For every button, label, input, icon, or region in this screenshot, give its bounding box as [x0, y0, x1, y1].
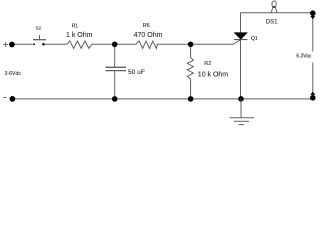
- node: right rail bottom junction: [310, 95, 316, 101]
- arrow down at right rail top: [310, 16, 315, 19]
- terminal dot minus: [10, 96, 16, 102]
- wire: right rail vertical upper: [312, 13, 314, 52]
- svg-text:DS1: DS1: [266, 20, 278, 26]
- node: R2 top junction: [188, 42, 194, 48]
- wire: plus terminal to switch: [12, 43, 32, 45]
- resistor R1 zigzag: [67, 41, 94, 48]
- SCR Q1 cathode bar: [234, 39, 248, 41]
- wire: R1 to R6 (through cap junction): [94, 43, 136, 45]
- resistor R6 zigzag: [136, 41, 158, 48]
- svg-text:R6: R6: [143, 23, 150, 29]
- svg-text:1 k Ohm: 1 k Ohm: [66, 32, 93, 39]
- wire: R6 to R2 junction: [157, 43, 191, 45]
- svg-text:Q1: Q1: [251, 36, 258, 42]
- wire: SCR cathode down to bottom rail: [240, 40, 242, 99]
- svg-text:50 uF: 50 uF: [128, 69, 145, 76]
- node: right rail top junction: [310, 10, 316, 16]
- SCR Q1 triangle: [234, 33, 248, 40]
- node: cap top junction: [112, 42, 118, 48]
- wire: bottom rail: [12, 98, 312, 100]
- switch S2 right contact dot: [42, 43, 45, 46]
- wire: R2 branch lower: [190, 79, 192, 99]
- wire: R2 branch upper: [190, 44, 192, 57]
- svg-text:Ohm: Ohm: [147, 32, 162, 39]
- wire: R2 junction to SCR gate: [191, 40, 241, 45]
- terminal plus sign: [3, 42, 8, 47]
- wire: SCR anode vertical up: [240, 13, 242, 33]
- svg-text:3-6Vdc: 3-6Vdc: [5, 71, 22, 77]
- terminal minus sign: [3, 97, 6, 99]
- terminal dot plus: [9, 42, 15, 48]
- wire: cap branch upper: [114, 44, 116, 67]
- wire: top rail from SCR anode corner to right rail: [241, 12, 313, 14]
- svg-text:6.3Vac: 6.3Vac: [296, 53, 312, 59]
- node: R2 bottom junction: [188, 96, 194, 102]
- svg-text:S2: S2: [35, 26, 41, 31]
- switch S2 stem: [39, 35, 41, 40]
- wire: cap branch lower: [114, 71, 116, 99]
- svg-text:R1: R1: [72, 24, 79, 30]
- capacitor C1 plates: [106, 67, 127, 70]
- switch S2 actuator bar: [33, 39, 46, 41]
- switch S2 left contact arrow: [32, 43, 35, 45]
- wire: right rail vertical lower: [312, 63, 314, 99]
- lamp DS1 bulb: [271, 1, 277, 13]
- arrow up at right rail bottom: [310, 92, 315, 95]
- resistor R2 zigzag: [187, 58, 193, 80]
- ground: [230, 99, 255, 125]
- node: cap bottom junction: [112, 96, 118, 102]
- lamp DS1 filament: [273, 6, 275, 7]
- wire: switch to R1: [45, 43, 67, 45]
- svg-text:470: 470: [134, 32, 146, 39]
- svg-text:R2: R2: [204, 61, 211, 67]
- svg-text:10 k Ohm: 10 k Ohm: [198, 71, 229, 78]
- node: SCR cathode bottom junction: [238, 96, 244, 102]
